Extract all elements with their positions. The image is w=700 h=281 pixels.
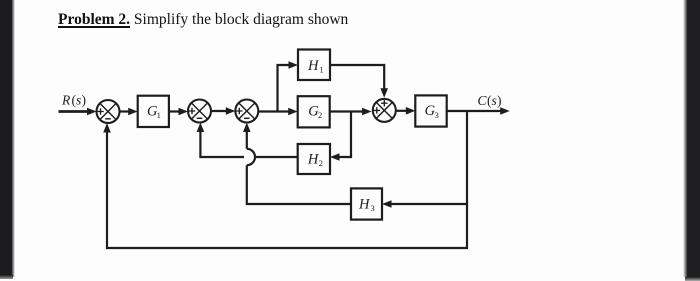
block H3 [351, 188, 382, 219]
wire SJ1 to G1 [120, 108, 138, 116]
wire G1 to SJ2 [169, 108, 188, 116]
node C(s) label [478, 93, 502, 108]
wire R(s) input arrow [59, 108, 97, 116]
wire outer feedback loop from node C to SJ1 [103, 111, 467, 248]
svg-text:s: s [76, 93, 81, 108]
wire branch node B down to H2 input [330, 112, 351, 161]
summing junction SJ3 [235, 100, 258, 123]
svg-text:C: C [478, 93, 488, 108]
block G3 [415, 95, 446, 126]
svg-text:1: 1 [157, 110, 161, 120]
wire H1 output down to SJ4 top [330, 65, 388, 98]
wire output branch down to H3 input [382, 200, 467, 208]
svg-text:H: H [307, 58, 320, 74]
svg-text:): ) [497, 93, 502, 108]
svg-text:2: 2 [319, 158, 323, 168]
svg-text:1: 1 [319, 64, 323, 74]
wire G3 output to C(s) with branch node C [447, 107, 510, 115]
summing junction SJ1 [97, 100, 120, 123]
block G1 [138, 96, 169, 127]
summing junction SJ2 [188, 100, 211, 123]
wire H3 output up to SJ3 with hop over H2 wire [243, 123, 351, 205]
wire branch node A up to H1 input [278, 61, 299, 111]
left page-edge black bar [0, 0, 15, 277]
svg-text:3: 3 [435, 110, 439, 120]
wire SJ3 to G2 with branch node A [258, 108, 297, 116]
summing junction SJ4 [373, 99, 396, 122]
svg-text:3: 3 [371, 203, 375, 213]
svg-text:s: s [492, 93, 497, 108]
svg-text:H: H [358, 197, 371, 213]
wire SJ2 to SJ3 [211, 107, 235, 115]
right page-edge black bar [683, 0, 700, 277]
block H1 [298, 50, 330, 81]
node R(s) label [61, 93, 86, 108]
block H2 [298, 144, 330, 174]
svg-text:): ) [82, 93, 87, 108]
svg-text:R: R [61, 93, 71, 108]
wire G2 to SJ4 with branch node B [330, 108, 372, 116]
wire SJ4 to G3 [396, 107, 416, 115]
svg-text:2: 2 [318, 110, 322, 120]
block G2 [298, 96, 330, 127]
wire H2 output to SJ2 (passes under hop) [197, 123, 298, 158]
